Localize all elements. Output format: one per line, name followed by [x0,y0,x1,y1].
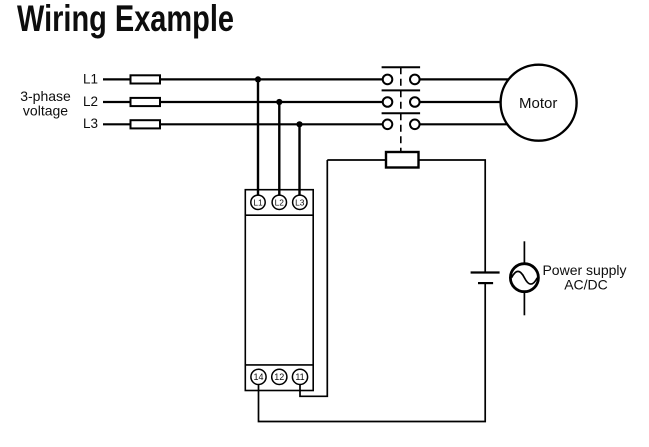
wire L3 phase line [103,123,383,125]
svg-text:L3: L3 [83,116,98,131]
node junction L1 [255,76,261,82]
contactor KM1 bar phase 2 [382,89,421,91]
motor M [501,65,577,141]
fuse F1 [131,75,161,83]
svg-text:L2: L2 [275,197,285,207]
terminal 12 of relay [272,369,287,384]
terminal L3 of relay [293,195,307,209]
contactor contact 2 left [383,97,393,107]
wire L1 phase line [103,78,383,80]
wire coil right to battery top [419,160,486,273]
contactor KM1 linkage dashed [400,67,402,152]
svg-text:voltage: voltage [23,102,68,118]
svg-text:Wiring Example: Wiring Example [17,0,234,39]
wire L2 phase line [103,101,383,103]
wire drop L2 to relay [278,102,280,196]
power supply G1 circle [510,264,538,292]
wire L3 to motor [420,123,530,125]
contactor contact 3 left [383,120,393,130]
wire L1 to motor [420,78,530,80]
relay K1 body [245,190,313,391]
node junction L2 [276,99,282,105]
wire coil left to loop [327,159,386,161]
svg-text:11: 11 [295,372,304,382]
svg-text:Motor: Motor [519,95,557,112]
contactor contact 1 right [410,75,420,85]
contactor contact 2 right [410,97,420,107]
power supply G1 stub top [523,241,525,263]
power supply G1 sine [512,271,538,284]
wire drop L1 to relay [257,79,259,196]
svg-text:L2: L2 [83,94,98,109]
wire L2 to motor [420,101,530,103]
svg-text:L1: L1 [253,197,263,207]
power supply G1 stub bottom [523,292,525,315]
svg-text:L1: L1 [83,71,98,86]
svg-text:12: 12 [274,372,284,382]
fuse F2 [131,98,161,106]
coil KM1 [386,152,419,168]
battery BT1 plate short [478,282,493,284]
svg-text:L3: L3 [295,197,305,207]
terminal 14 of relay [251,369,266,384]
terminal L1 of relay [251,195,265,209]
battery BT1 plate long [471,271,500,273]
wire terminal 11 loop up [300,160,327,396]
terminal L2 of relay [272,195,286,209]
contactor KM1 bar phase 1 [382,66,421,68]
wire drop L3 to relay [298,124,300,196]
node junction L3 [296,121,302,127]
terminal 11 of relay [292,369,307,384]
svg-text:AC/DC: AC/DC [564,277,608,293]
wire terminal 14 to battery bottom [259,283,486,421]
contactor KM1 bar phase 3 [382,112,421,114]
fuse F3 [131,120,161,128]
contactor contact 3 right [410,120,420,130]
svg-text:14: 14 [253,372,263,382]
contactor contact 1 left [383,75,393,85]
